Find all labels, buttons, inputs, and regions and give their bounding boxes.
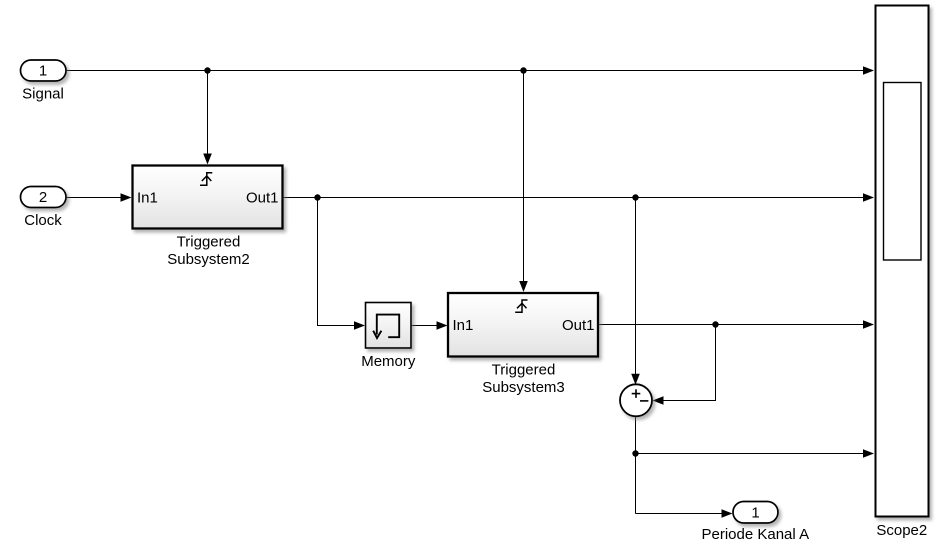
- svg-text:Periode Kanal A: Periode Kanal A: [702, 526, 810, 543]
- svg-text:1: 1: [751, 505, 759, 522]
- svg-text:Signal: Signal: [22, 85, 64, 102]
- svg-text:Triggered: Triggered: [492, 362, 556, 379]
- svg-text:1: 1: [39, 63, 47, 80]
- svg-text:2: 2: [39, 189, 47, 206]
- svg-text:Scope2: Scope2: [876, 522, 927, 539]
- svg-text:In1: In1: [453, 317, 474, 334]
- svg-text:Triggered: Triggered: [177, 234, 241, 251]
- svg-text:Clock: Clock: [24, 212, 62, 229]
- svg-text:Out1: Out1: [562, 317, 595, 334]
- svg-text:Out1: Out1: [246, 190, 279, 207]
- svg-text:Subsystem3: Subsystem3: [482, 379, 565, 396]
- svg-text:In1: In1: [137, 190, 158, 207]
- svg-text:Subsystem2: Subsystem2: [167, 251, 250, 268]
- svg-text:Memory: Memory: [361, 353, 416, 370]
